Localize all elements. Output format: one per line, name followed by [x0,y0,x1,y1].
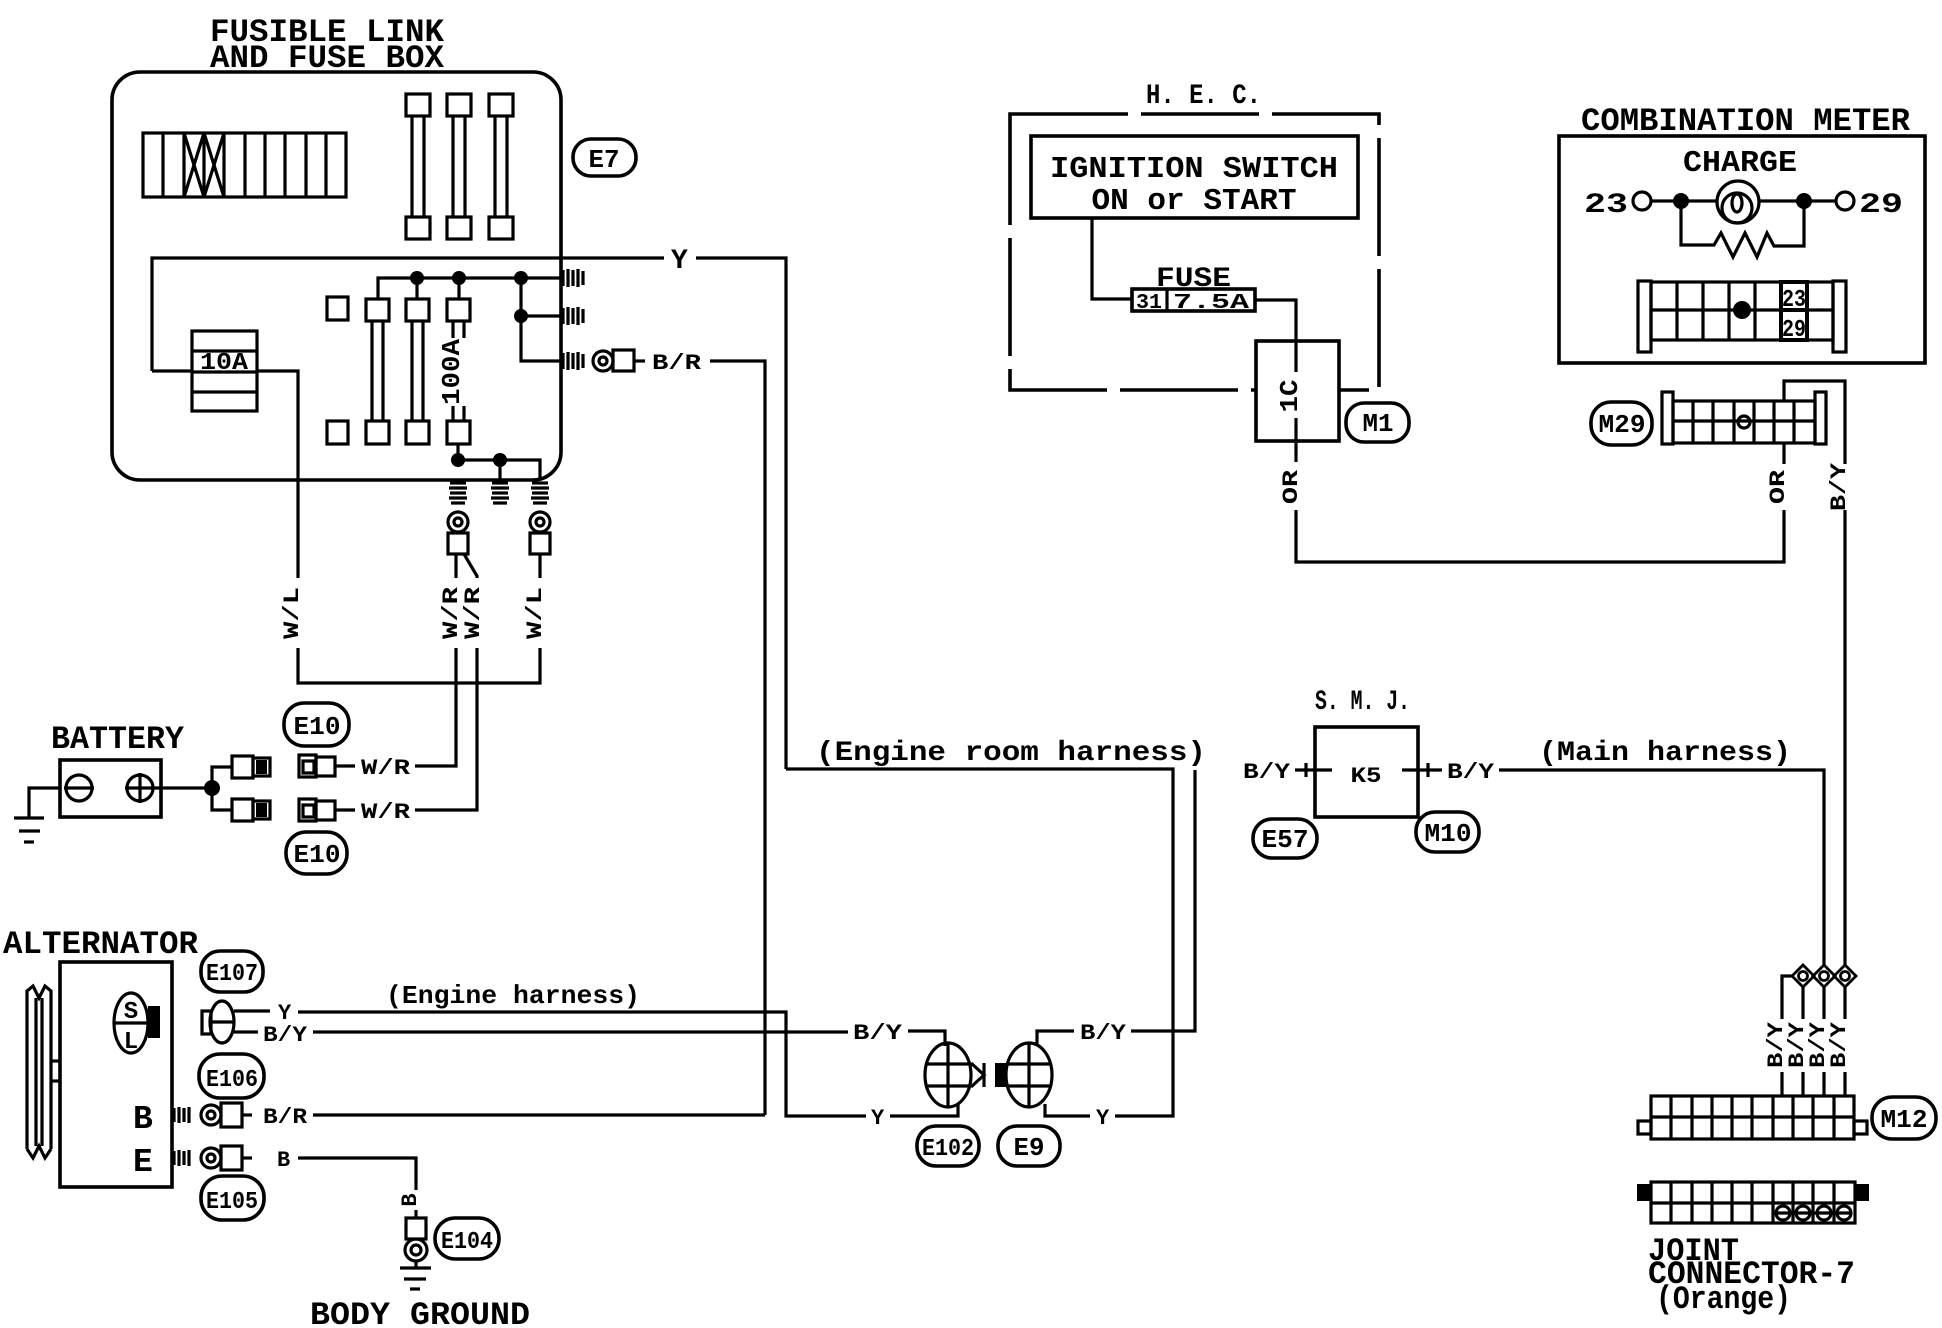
ground (battery) [14,818,44,842]
wire: drop to fuse F2 [415,278,418,299]
svg-text:W/R: W/R [361,756,411,781]
svg-text:W/L: W/L [280,587,305,639]
wire: fuse to connector 1C [1255,300,1296,341]
connector label E105 [201,1176,264,1220]
connector label E57 [1253,819,1317,858]
ring terminal lug 3 [530,533,550,554]
connector label E102 [917,1126,979,1166]
meter connector strip left cap [1638,281,1651,352]
wire to ground symbol [414,1261,417,1268]
junction dot [493,453,507,467]
ring terminal B [201,1105,221,1125]
wire: W/L up to lug 3 [538,554,541,578]
junction dot [514,309,528,323]
fuse F1 (blank) [366,299,389,444]
wire stub to ground lug [414,1210,417,1218]
wire: W/R 2 down to E10 row [415,648,477,810]
bolt bus under box [458,460,540,480]
wire: B/Y drop to joint connector [1843,510,1846,967]
svg-text:B/R: B/R [263,1105,308,1130]
svg-text:E105: E105 [206,1189,258,1216]
connector label E107 [201,951,263,992]
junction node left [1673,193,1689,209]
terminal circle 23 [1633,192,1651,210]
svg-text:E102: E102 [922,1136,974,1163]
svg-text:B/Y: B/Y [853,1021,903,1046]
connector label E104 [435,1218,499,1259]
svg-text:B/Y: B/Y [1827,462,1852,511]
wire: diamond3 drop [1843,987,1846,1019]
fuse 31 7.5A [1132,289,1255,315]
svg-text:Y: Y [871,1106,885,1131]
connector label M10 [1416,812,1479,852]
harness connector E107 (2-pin) [202,1001,270,1043]
ignition switch box [1031,136,1358,218]
connector E9 (round) [995,1043,1052,1107]
harness side connector E10 (upper) [299,755,355,777]
joint diamond 1 [1792,965,1814,987]
ground ring terminal E104 [405,1239,427,1261]
wire: into M12 pin 8 [1801,1072,1804,1096]
svg-text:S. M. J.: S. M. J. [1315,687,1410,718]
svg-text:B: B [277,1148,290,1173]
svg-text:ON or START: ON or START [1092,184,1297,219]
battery positive terminal [125,773,155,803]
svg-text:B/Y: B/Y [1243,760,1291,785]
svg-text:E107: E107 [206,961,258,988]
battery box [60,760,161,817]
wire: main harness B/Y to joint connector [1499,770,1824,967]
battery side connector (lower) [232,799,270,821]
connector E102 (round) [925,1043,984,1107]
bolt terminal 1 (threaded) [449,483,467,503]
fusible link FL3 [489,94,513,239]
wire: 10A fuse to W/L drop [257,371,298,578]
spare cavity square lower [327,421,348,444]
svg-text:E: E [133,1144,153,1181]
connector label E10 (lower) [286,832,347,874]
wire: B/Y into K5 left [1295,768,1332,771]
svg-text:M29: M29 [1599,410,1646,440]
wire: B/Y riser to K5 [1131,770,1195,1031]
fusible link FL1 [406,94,430,239]
meter connector strip right cap [1833,281,1846,352]
wire: diamond1 drop [1801,987,1804,1019]
meter connector strip grid [1651,282,1833,340]
fuse box E7 outline [112,72,561,480]
connector label M12 [1872,1097,1936,1139]
H.E.C. dashed enclosure [1010,114,1379,390]
svg-text:E57: E57 [1262,825,1309,855]
junction dot [451,453,465,467]
bolt terminal 3 (threaded) [531,483,549,503]
fuse F3 100A [447,299,470,444]
wire: junction to lower connector [212,788,232,810]
wire: drop to bolt 2 [498,460,501,481]
wire: B/Y out of K5 right [1402,768,1442,771]
junction dot [410,271,424,285]
svg-text:BODY GROUND: BODY GROUND [310,1297,530,1328]
M12 right tab [1854,1121,1867,1134]
pin tick right [1426,763,1429,777]
M29 strip right cap [1815,392,1826,444]
svg-text:B/Y: B/Y [1080,1021,1127,1046]
M29 strip grid [1673,401,1815,443]
svg-text:K5: K5 [1351,764,1382,789]
svg-text:29: 29 [1782,317,1806,344]
joint connector left tab (black) [1637,1184,1651,1201]
svg-text:(Main harness): (Main harness) [1539,738,1791,769]
junction node [204,780,220,796]
fusible link block (hatched) [143,133,346,197]
fusible link FL2 [447,94,471,239]
junction dot [514,271,528,285]
interior bus with junctions [378,278,562,299]
svg-text:29: 29 [1859,190,1903,221]
svg-text:OR: OR [1766,469,1791,504]
svg-text:(Engine harness): (Engine harness) [386,981,640,1011]
battery side connector (upper) [232,756,270,778]
wire W/R 2 diagonal from lug 1 [464,554,477,578]
resistor (parallel with lamp) [1681,201,1804,257]
svg-text:E104: E104 [441,1229,493,1256]
svg-text:Y: Y [671,246,688,277]
pin cell 23 (bold) [1781,282,1807,310]
wire: B to body ground [298,1158,416,1190]
svg-text:S: S [124,999,138,1026]
connector label M1 [1346,403,1409,442]
wire: ignition switch to fuse [1092,218,1132,299]
wire: battery positive to junction [155,786,212,789]
svg-text:23: 23 [1584,190,1628,221]
harness side connector E10 (lower) [299,799,355,821]
connector lug at B/R tab [613,350,634,371]
svg-text:100A: 100A [437,339,467,405]
connector 1C box [1256,341,1339,441]
spare cavity square upper [327,297,348,320]
wire: engine room harness Y run [786,769,1173,1116]
wire: 100A fuse to bolt bus [456,444,459,460]
svg-text:E106: E106 [206,1067,258,1094]
wire: Y into E9 [1045,1104,1090,1116]
side tab terminal 3 [563,352,583,370]
wire: diamond1 branch left drop [1782,976,1792,1019]
svg-text:23: 23 [1782,287,1806,314]
wire: junction to upper connector [212,767,232,788]
wire: W/L loop bottom [298,648,540,683]
svg-text:BATTERY: BATTERY [51,721,185,758]
wire: branch to middle tab [521,314,562,317]
wire: OR into M29 [1782,444,1785,464]
bolt terminal E (threaded) [174,1150,189,1166]
ring terminal under bolt 3 [530,512,550,532]
pin tick left [1304,763,1307,777]
side tab terminal 1 [563,269,583,287]
svg-text:B: B [398,1193,423,1206]
wire: drop to fuse F3 [457,278,460,299]
combination meter box [1559,136,1925,363]
battery negative terminal [64,775,94,801]
junction node right [1796,193,1812,209]
wire: into M12 pin 10 [1843,1072,1846,1096]
svg-text:CHARGE: CHARGE [1683,146,1797,181]
svg-text:10A: 10A [200,350,249,377]
svg-text:31: 31 [1136,292,1162,315]
wire: Y into E102 bottom [890,1104,958,1116]
title: FUSIBLE LINK AND FUSE BOX [210,14,445,77]
wire: OR run from 1C to M29 [1296,510,1784,562]
wire lamp to node [1759,199,1836,202]
junction dot [452,271,466,285]
side tab terminal 2 [563,307,583,325]
svg-text:W/R: W/R [361,800,411,825]
wire 23 to node [1651,199,1717,202]
charge lamp [1717,181,1759,223]
M12 left tab [1638,1121,1651,1134]
wire: into M12 pin 7 [1780,1072,1783,1096]
ring terminal E [201,1148,221,1168]
wire W/R 1 from lug 1 [454,554,457,578]
wire: Y bus from 10A fuse to box edge [152,258,664,371]
body ground symbol [400,1268,431,1289]
fuse F2 (blank) [406,299,429,444]
M29 strip left cap [1662,392,1673,444]
svg-text:H. E. C.: H. E. C. [1146,81,1261,112]
S.M.J. box K5 [1315,727,1418,817]
wire: B/R to corner down [710,361,765,1115]
wire: diamond2 drop [1822,987,1825,1019]
svg-text:OR: OR [1279,469,1304,504]
connector label E9 [998,1126,1060,1166]
connector M12 grid [1651,1096,1854,1139]
wire: M29 pin up to B/Y drop [1784,381,1845,464]
fuse 10A [152,331,257,411]
joint connector 7 grid [1651,1182,1855,1223]
pin stub out of 1C [1294,418,1297,462]
lug E [221,1146,252,1170]
lug B [221,1103,252,1127]
svg-text:(Orange): (Orange) [1656,1281,1791,1318]
svg-text:M1: M1 [1363,409,1394,439]
svg-text:B: B [133,1101,153,1138]
svg-text:W/R: W/R [461,586,486,639]
svg-text:E10: E10 [294,712,341,742]
svg-text:B/Y: B/Y [263,1023,308,1048]
svg-text:B/Y: B/Y [1827,1021,1852,1068]
ground lug square [406,1218,426,1239]
wire: drop to side tabs [521,278,562,361]
connector label M29 [1591,402,1652,445]
connector label E10 (upper) [284,703,349,746]
wire: Y engine harness [298,1012,866,1116]
svg-text:E7: E7 [589,145,620,175]
bolt terminal 2 (threaded) [491,483,509,503]
alternator box [60,962,172,1187]
wire: B/R to fuse box riser [313,1113,765,1116]
pin stub into 1C [1294,341,1297,372]
svg-text:L: L [124,1029,138,1056]
alternator pulley [27,986,51,1158]
joint connector right tab (black) [1855,1184,1869,1201]
svg-text:E9: E9 [1014,1133,1045,1163]
svg-text:Y: Y [1096,1106,1110,1131]
ring terminal at B/R tab [593,351,613,371]
pin cell 29 (bold) [1781,310,1807,340]
svg-text:1C: 1C [1275,380,1305,413]
svg-text:M12: M12 [1881,1105,1928,1135]
connector label E106 [199,1054,264,1098]
wire: B/Y into E102 top [908,1031,945,1046]
tick to B/R label [634,359,645,362]
pulley shaft links [51,1061,60,1081]
wire: battery negative to ground [29,788,60,818]
svg-text:B/Y: B/Y [1447,760,1495,785]
wire: into M12 pin 9 [1822,1072,1825,1096]
svg-text:E10: E10 [294,840,341,870]
ring terminal under bolt 1 [448,512,468,532]
wire: Y continues to corner [696,258,786,769]
svg-text:(Engine room harness): (Engine room harness) [816,738,1206,769]
svg-text:M10: M10 [1425,819,1472,849]
svg-text:B/R: B/R [652,351,702,376]
wire: B/Y into E9 top [1037,1031,1074,1046]
svg-text:ALTERNATOR: ALTERNATOR [3,926,199,963]
wire: B/Y engine harness [313,1030,848,1033]
bolt terminal B (threaded) [174,1107,189,1123]
joint bus circles [1776,1206,1851,1220]
terminal circle 29 [1836,192,1854,210]
svg-text:7.5A: 7.5A [1173,292,1250,315]
keying circle in M29 strip [1738,416,1750,428]
S/L terminal connector [114,993,160,1056]
svg-text:W/L: W/L [523,587,548,639]
ring terminal lug 1 [448,533,468,554]
svg-text:IGNITION SWITCH: IGNITION SWITCH [1050,152,1338,187]
joint diamond 2 [1813,965,1835,987]
connector label E7 [573,139,636,176]
joint diamond 3 [1834,965,1856,987]
keying dot in strip [1733,301,1751,319]
wire: W/R 1 down to E10 row [415,648,456,766]
